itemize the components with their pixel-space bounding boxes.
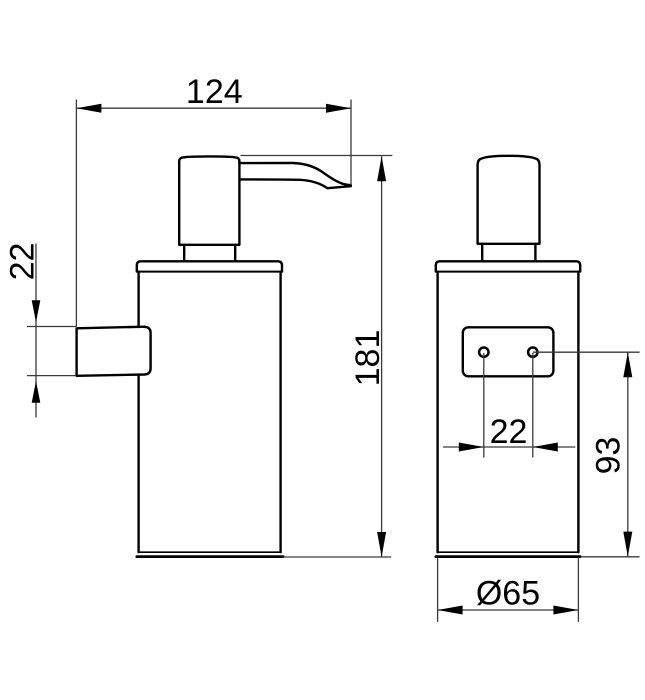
dim 22 holes: left extension line [483,353,485,458]
dim 22 left: lower extension line [27,375,76,377]
dim 65: right arrow [553,606,578,615]
wall plate (front) [463,327,554,376]
pump stem (front) [482,244,535,260]
bottom edge thick (front) [436,555,580,558]
dim 22 left: bottom arrow (points up) [32,381,41,403]
screw hole right [528,348,537,357]
screw hole left [479,348,488,357]
dim 181: bottom arrow [377,532,386,557]
pump head (front) [478,156,540,244]
body walls (front) [438,272,579,553]
svg-text:22: 22 [4,243,42,281]
dim 22 left: upper extension line [27,326,76,328]
dim 65: dimension line [438,609,579,611]
dim 22 holes: left arrow (points right) [459,443,484,452]
dim 181: dimension line [381,156,383,557]
dim 65: left extension line [437,558,439,622]
dim 124: right arrow [326,104,351,113]
wall bracket (side) [77,327,151,376]
dim 22 left: top arrow (points down) [32,300,41,322]
cap bottom line (side) [138,271,282,273]
dim 124: dimension line [76,107,351,109]
dim 181: top arrow [377,156,386,181]
body left wall (side, interrupted by bracket) [137,272,139,553]
bottom edge thick (side) [137,555,283,558]
dim 181: bottom extension line [282,556,391,558]
dim 22 holes: dimension line [443,446,575,448]
spout [239,163,350,188]
svg-text:181: 181 [349,330,387,387]
dim 93: dimension line [627,352,629,556]
dim 93: bottom extension line [581,556,640,558]
dim 181: top extension line [240,155,392,157]
svg-text:22: 22 [490,413,528,451]
dim 22 holes: right arrow (points left) [533,443,558,452]
dim 93: top arrow [623,352,632,377]
dim 22 holes: right extension line [532,353,534,458]
dim 65: right extension line [577,558,579,622]
dim 93: top extension line from right hole [533,351,640,353]
bottom rim inner line (side) [139,551,281,553]
dim 22 left: dimension line [35,244,37,418]
dim 93: bottom arrow [623,532,632,557]
dim 124: right extension line [350,100,352,185]
body cap (front) [436,261,580,271]
svg-text:124: 124 [186,73,243,111]
dim 124: left arrow [76,104,101,113]
dim 65: left arrow [438,606,463,615]
bottom rim inner line (front) [438,551,579,553]
pump head (side) [179,156,239,244]
body cap (side) [137,261,282,271]
dim 124: left extension line [75,100,77,327]
svg-text:Ø65: Ø65 [476,575,540,613]
pump stem (side) [184,245,235,260]
cap bottom line (front) [437,271,580,273]
body right wall (side) [279,272,281,553]
svg-text:93: 93 [590,437,628,475]
